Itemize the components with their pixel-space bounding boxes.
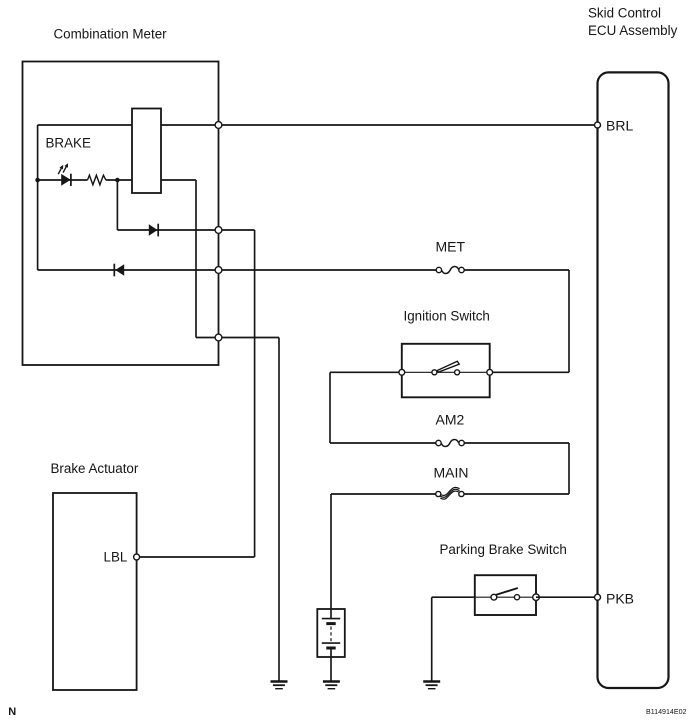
meter terminal circle y=125 (215, 122, 222, 129)
wire BRL horizontal (meter to ECU) y=125 (38, 124, 595, 126)
terminal BRL (595, 122, 601, 128)
svg-text:Parking Brake Switch: Parking Brake Switch (440, 542, 567, 557)
fuse MET (436, 267, 464, 274)
combination meter box (23, 62, 219, 366)
brake actuator box (53, 493, 137, 690)
ignition contact circle 2 (455, 370, 460, 375)
wire ignition right y=372.3 (490, 371, 569, 373)
wire LED branch y=180 left (38, 179, 88, 181)
parking switch lever (496, 588, 518, 595)
ground G1 (left) (271, 682, 288, 689)
fuse AM2 (436, 440, 465, 447)
meter terminal circle y=270 (215, 267, 222, 274)
svg-text:MET: MET (436, 239, 466, 255)
wire vertical x=569 (AM2 to MAIN) (568, 443, 570, 494)
svg-text:BRL: BRL (606, 118, 633, 134)
wire ignition left y=372.3 (330, 371, 402, 373)
parking contact circle 1 (491, 594, 497, 600)
ignition switch lever (437, 361, 459, 372)
wire AM2 left y=443 (330, 442, 436, 444)
battery BAT (317, 609, 345, 657)
wire vertical x=117.4 (116, 180, 118, 230)
wire diode branch y=230 (117, 229, 254, 231)
meter terminal circle y=230 (215, 227, 222, 234)
wire block right to x=196 y=180 (161, 179, 196, 181)
parking contact circle 2 (514, 595, 519, 600)
wire resistor to meter block (106, 179, 132, 181)
junction dot B (117.4,180) (115, 178, 120, 183)
wire PKB y=597.2 (536, 596, 595, 598)
wire AM2 right y=443 (464, 442, 569, 444)
svg-text:N: N (8, 706, 16, 718)
parking brake switch box (475, 575, 536, 615)
wire vertical x=569 (MET to ignition) (568, 270, 570, 372)
wire MAIN right y=494 (464, 493, 569, 495)
svg-text:Ignition Switch: Ignition Switch (404, 309, 490, 324)
svg-text:BRAKE: BRAKE (46, 136, 91, 151)
wire ground branch y=337.5 (196, 337, 279, 339)
ignition terminal right (487, 369, 493, 375)
svg-text:Combination Meter: Combination Meter (54, 26, 168, 41)
wire vertical x=196 (195, 180, 197, 338)
wire LBL horizontal y=557 (137, 556, 255, 558)
wire MET fuse to corner (464, 269, 569, 271)
svg-text:B114914E02: B114914E02 (646, 708, 687, 716)
wire vertical x=279 (to ground) (278, 338, 280, 682)
diode D3 (pointing left) (114, 264, 124, 277)
wire left vertical x=37.6 (37, 125, 39, 270)
wire MET branch y=270 (38, 269, 437, 271)
terminal PKB (595, 594, 601, 600)
ignition terminal left (399, 369, 405, 375)
wire vertical x=330 (ignition to AM2) (329, 372, 331, 443)
terminal LBL (134, 554, 140, 560)
wire vertical x=431.7 (to ground) (431, 597, 433, 681)
wire parking left y=597.2 (432, 596, 475, 598)
wire MAIN left y=494 (331, 493, 436, 495)
wire battery to ground (330, 657, 332, 681)
svg-text:AM2: AM2 (436, 412, 465, 428)
ignition switch internal wire (402, 371, 490, 373)
skid control ECU box (598, 72, 669, 688)
wire vertical x=331 (MAIN to battery) (330, 494, 332, 609)
meter inner component block (132, 109, 161, 194)
ignition switch box (402, 344, 490, 398)
junction dot A (37.6,180) (35, 178, 40, 183)
wire vertical x=254.6 (to LBL) (254, 230, 256, 557)
parking terminal right (533, 594, 540, 601)
ground G3 (parking switch) (423, 682, 440, 689)
ground G2 (battery) (323, 682, 340, 689)
meter terminal circle y=337.5 (215, 334, 222, 341)
svg-text:Skid Control: Skid Control (588, 6, 661, 21)
svg-text:MAIN: MAIN (434, 465, 469, 481)
svg-text:PKB: PKB (606, 591, 634, 607)
fusible link MAIN (436, 487, 464, 499)
parking switch internal wire (475, 596, 536, 598)
diode D2 (pointing right) (149, 224, 158, 237)
LED D1 (58, 163, 71, 186)
svg-text:LBL: LBL (104, 550, 128, 565)
ignition contact circle 1 (432, 370, 437, 375)
svg-text:ECU Assembly: ECU Assembly (588, 23, 678, 38)
resistor R1 (88, 175, 106, 185)
svg-text:Brake Actuator: Brake Actuator (51, 461, 139, 476)
